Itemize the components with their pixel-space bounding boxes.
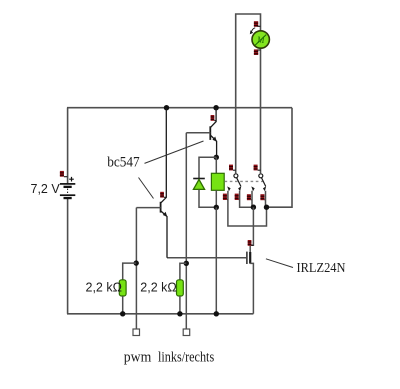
wire drain node to MOSFET drain [250,207,253,252]
resistor R2 2,2k [177,280,184,296]
red probe mark S2 throw left [247,194,252,200]
switch S1 blade [237,178,241,187]
wire left rail upper (to battery +) [67,108,69,184]
wire Q1 base [186,132,210,134]
wire diode branch top [199,157,216,178]
terminal links/rechts [183,329,190,336]
wire right rail (+V down to node) [267,108,293,208]
node dot R2 ground [177,311,182,316]
wire diode branch bottom [199,190,216,208]
battery B1 7,2V [60,177,75,199]
relay coil K1 [211,173,224,190]
motor adjust arrow [250,28,255,34]
wire R1 to ground bus [122,296,124,314]
node dot top rail / Q2 collector [164,105,169,110]
red probe mark S2 throw right [260,194,265,200]
pointer line bc547 to Q1 [145,141,204,163]
wire pwm input riser [135,208,137,329]
node dot coil/diode bottom [214,205,219,210]
svg-text:7,2 V: 7,2 V [31,182,61,196]
pointer line bc547 to Q2 [139,178,154,199]
red probe mark Q1 collector [211,115,217,121]
pointer line IRLZ24N to Q3 [266,259,293,268]
wire links/rechts riser (Q1 base) [185,133,187,329]
wire Q1 emitter to relay coil [215,157,217,173]
svg-text:2,2 kΩ: 2,2 kΩ [86,281,122,295]
node dot R1 ground [120,311,125,316]
red probe mark S1 throw right [235,194,240,200]
wire bottom ground bus [67,313,253,315]
wire R2 jog [180,263,186,280]
terminal pwm [133,329,140,336]
switch S1 throw left arrow [227,186,230,191]
node dot Q1 emitter / coil+diode top [214,155,219,160]
switch S1 common contact [234,174,238,178]
red probe mark motor top [254,21,261,27]
wire S1 throw left to +V cross-link [228,191,267,226]
wire coil bottom to ground bus [215,207,217,313]
wire motor bottom to switch S2 common [260,48,262,173]
wire relay coil bottom [215,190,217,207]
wire R1 jog [123,263,137,280]
switch S2 common contact [259,174,263,178]
wire S2 throw right to +V node [266,191,267,207]
red probe mark S1 common [229,165,236,171]
wire MOSFET source to ground bus [250,263,253,313]
node dot +V junction [264,205,269,210]
wire S2 throw left to drain node [252,191,253,207]
wire Q2 base [136,207,160,209]
diode D1 (flyback) [193,179,205,190]
wire motor loop top/left (motor to switch S1 common) [236,14,261,173]
switch S2 blade [262,178,266,187]
node dot drain junction [251,205,256,210]
node dot pwm / R1 tap [134,260,139,265]
transistor Q1 bc547 (upper) [210,108,217,158]
resistor R1 2,2k [119,280,126,296]
transistor Q2 bc547 (lower) [161,108,168,258]
svg-text:2,2 kΩ: 2,2 kΩ [140,281,176,295]
svg-text:IRLZ24N: IRLZ24N [297,260,346,275]
switch S1 throw right arrow [238,186,241,191]
svg-text:pwm: pwm [124,350,152,366]
switch S2 throw right arrow [263,186,266,191]
node dot ground bus / coil return [214,311,219,316]
red probe mark Q2 collector [160,192,166,198]
wire top rail +V [67,107,292,109]
node dot top rail / Q1 collector [213,105,218,110]
red probe mark motor bottom [254,49,261,55]
svg-text:bc547: bc547 [107,155,140,171]
svg-text:links/rechts: links/rechts [158,350,215,366]
red probe mark S2 common [254,165,261,171]
switch S2 throw left arrow [251,186,254,191]
transistor Q3 MOSFET IRLZ24N [247,252,250,264]
wire R2 to ground bus [179,296,181,314]
wire S1 throw right to drain node [240,191,254,207]
relay actuation dashed link [225,180,264,182]
wire MOSFET gate line [167,257,247,259]
red probe mark battery [60,171,68,177]
node dot links / R2 tap [184,261,189,266]
wire left rail lower (battery - to bottom bus) [67,198,69,314]
red probe mark MOSFET drain [248,240,254,246]
motor M1 [252,31,269,48]
red probe mark S1 throw left [223,194,228,200]
